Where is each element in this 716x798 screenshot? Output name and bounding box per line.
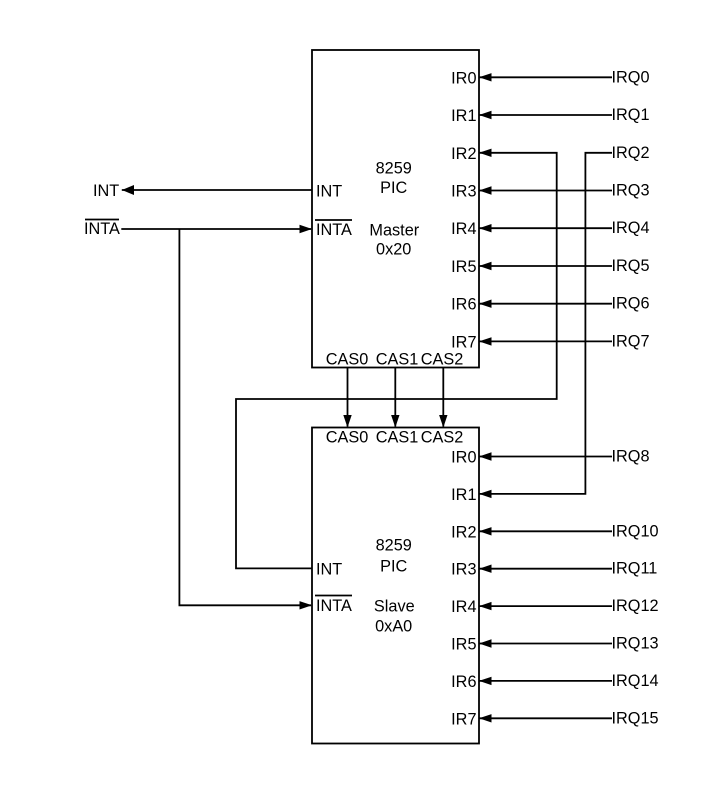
arrow into slave IR0 (479, 452, 492, 460)
svg-text:IR0: IR0 (451, 69, 476, 87)
svg-text:IR4: IR4 (451, 598, 476, 616)
arrow into master IR1 (479, 111, 492, 119)
svg-text:PIC: PIC (380, 179, 407, 197)
wire IRQ11 to slave IR3 (479, 568, 612, 570)
svg-text:CAS1: CAS1 (376, 350, 419, 368)
wire IRQ1 to master IR1 (479, 114, 612, 116)
svg-text:0xA0: 0xA0 (375, 618, 412, 636)
svg-text:IR0: IR0 (451, 449, 476, 467)
svg-text:IRQ11: IRQ11 (612, 560, 658, 578)
svg-text:IR6: IR6 (451, 673, 476, 691)
arrow into master IR6 (479, 300, 492, 308)
master pin INTA overline (315, 219, 352, 221)
svg-text:IRQ5: IRQ5 (612, 257, 650, 275)
svg-text:IRQ4: IRQ4 (612, 219, 650, 237)
arrow INT left (122, 185, 134, 195)
svg-text:IR3: IR3 (451, 183, 476, 201)
svg-text:CAS2: CAS2 (421, 350, 464, 368)
wire CAS0 master to slave (347, 368, 349, 427)
svg-text:IRQ15: IRQ15 (612, 709, 659, 727)
arrow into master IR7 (479, 337, 492, 345)
svg-text:IR2: IR2 (451, 523, 476, 541)
svg-text:IRQ10: IRQ10 (612, 522, 659, 540)
node INTA overline (left) (85, 219, 119, 221)
arrow into master IR3 (479, 186, 492, 194)
wire IRQ0 to master IR0 (479, 76, 612, 78)
arrow into slave IR6 (479, 677, 492, 685)
svg-text:IR3: IR3 (451, 561, 476, 579)
svg-text:IRQ12: IRQ12 (612, 597, 659, 615)
svg-text:0x20: 0x20 (376, 241, 411, 259)
arrow into slave CAS1 (391, 415, 399, 428)
arrow into slave CAS0 (343, 415, 351, 428)
wire IRQ10 to slave IR2 (479, 530, 612, 532)
wire IRQ14 to slave IR6 (479, 680, 612, 682)
svg-text:IRQ6: IRQ6 (612, 295, 650, 313)
svg-text:IR5: IR5 (451, 258, 476, 276)
svg-text:IR1: IR1 (451, 107, 476, 125)
svg-text:CAS2: CAS2 (421, 428, 464, 446)
wire IRQ7 to master IR7 (479, 340, 612, 342)
wire IRQ15 to slave IR7 (479, 717, 612, 719)
slave PIC U2 box (312, 428, 479, 744)
wire INT output to left (122, 189, 312, 191)
svg-text:Slave: Slave (374, 598, 415, 616)
arrow INTA into master (300, 225, 313, 233)
wire IRQ4 to master IR4 (479, 227, 612, 229)
wire IRQ2 down to slave IR1 (479, 153, 612, 494)
master PIC U1 box (312, 50, 479, 368)
svg-text:IR7: IR7 (451, 710, 476, 728)
arrow into slave CAS2 (439, 415, 447, 428)
wire CAS1 master to slave (394, 368, 396, 427)
svg-text:IRQ0: IRQ0 (612, 68, 650, 86)
svg-text:CAS0: CAS0 (326, 350, 369, 368)
arrow into slave IR2 (479, 527, 492, 535)
svg-text:IRQ13: IRQ13 (612, 635, 659, 653)
svg-text:IR1: IR1 (451, 486, 476, 504)
arrow into slave IR1 (479, 490, 492, 498)
svg-text:IR4: IR4 (451, 220, 476, 238)
svg-text:INTA: INTA (316, 597, 352, 615)
arrow into slave IR4 (479, 602, 492, 610)
wire IRQ13 to slave IR5 (479, 643, 612, 645)
svg-text:IR6: IR6 (451, 296, 476, 314)
svg-text:8259: 8259 (376, 160, 412, 178)
svg-text:INTA: INTA (316, 221, 352, 239)
wire IRQ8 to slave IR0 (479, 456, 612, 458)
svg-text:8259: 8259 (376, 537, 412, 555)
wire IRQ6 to master IR6 (479, 303, 612, 305)
svg-text:INT: INT (316, 183, 342, 201)
svg-text:IRQ1: IRQ1 (612, 106, 650, 124)
svg-text:IRQ7: IRQ7 (612, 332, 650, 350)
arrow into slave IR7 (479, 714, 492, 722)
svg-text:CAS0: CAS0 (326, 428, 369, 446)
wire IRQ5 to master IR5 (479, 265, 612, 267)
svg-text:IR2: IR2 (451, 145, 476, 163)
arrow into master IR4 (479, 224, 492, 232)
wire IRQ3 to master IR3 (479, 190, 612, 192)
svg-text:INT: INT (93, 182, 119, 200)
arrow into master IR0 (479, 73, 492, 81)
svg-text:IRQ14: IRQ14 (612, 672, 659, 690)
wire slave INT to master IR2 (236, 153, 557, 569)
arrow into master IR2 (479, 149, 492, 157)
wire IRQ12 to slave IR4 (479, 605, 612, 607)
wire CAS2 master to slave (442, 368, 444, 427)
svg-text:IRQ8: IRQ8 (612, 448, 650, 466)
svg-text:IR7: IR7 (451, 333, 476, 351)
svg-text:IR5: IR5 (451, 636, 476, 654)
slave pin INTA overline (315, 595, 352, 597)
wire INTA input to master (121, 228, 311, 230)
svg-text:INT: INT (316, 560, 342, 578)
arrow into slave IR3 (479, 565, 492, 573)
svg-text:Master: Master (369, 222, 419, 240)
svg-text:PIC: PIC (380, 557, 407, 575)
wire INTA branch down to slave (179, 229, 311, 605)
arrow into master IR5 (479, 262, 492, 270)
svg-text:IRQ2: IRQ2 (612, 144, 650, 162)
svg-text:CAS1: CAS1 (376, 428, 419, 446)
arrow INTA into slave (300, 601, 313, 609)
svg-text:IRQ3: IRQ3 (612, 182, 650, 200)
svg-text:INTA: INTA (84, 220, 120, 238)
arrow into slave IR5 (479, 639, 492, 647)
